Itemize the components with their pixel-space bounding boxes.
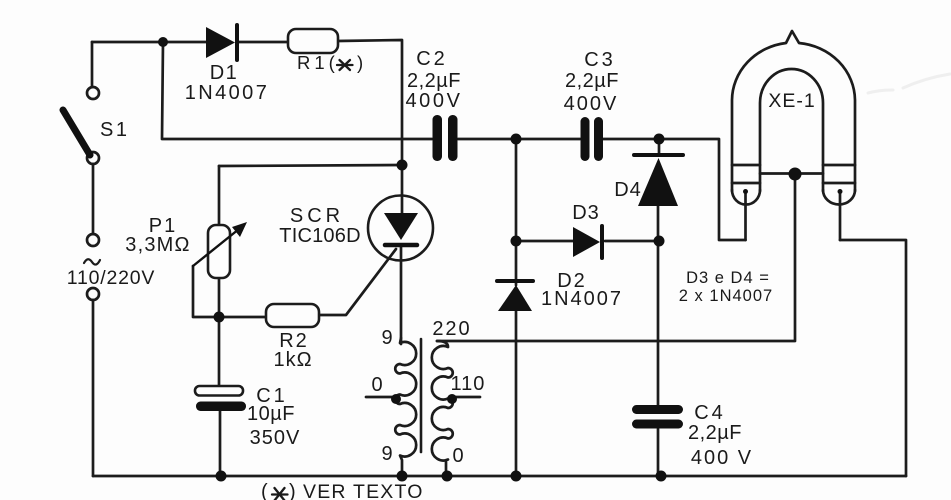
svg-text:400V: 400V — [564, 93, 619, 115]
svg-text:XE-1: XE-1 — [768, 90, 815, 112]
svg-text:2,2µF: 2,2µF — [565, 70, 619, 92]
svg-text:0: 0 — [452, 445, 465, 467]
svg-text:R1(: R1( — [297, 52, 339, 73]
svg-text:400V: 400V — [405, 90, 462, 112]
svg-text:9: 9 — [381, 443, 394, 465]
svg-text:D1: D1 — [210, 62, 239, 84]
svg-text:TIC106D: TIC106D — [279, 225, 360, 247]
svg-text:2,2µF: 2,2µF — [688, 422, 742, 444]
svg-text:VER TEXTO: VER TEXTO — [303, 481, 424, 500]
svg-text:220: 220 — [432, 318, 471, 340]
svg-text:110/220V: 110/220V — [67, 267, 155, 289]
svg-text:2,2µF: 2,2µF — [407, 70, 461, 92]
svg-text:C4: C4 — [694, 402, 726, 424]
svg-text:(: ( — [261, 481, 270, 500]
svg-text:0: 0 — [371, 374, 384, 396]
svg-text:1N4007: 1N4007 — [185, 82, 269, 104]
svg-text:400 V: 400 V — [691, 447, 753, 469]
svg-text:SCR: SCR — [290, 205, 344, 227]
svg-text:1N4007: 1N4007 — [541, 288, 623, 310]
svg-text:2 x 1N4007: 2 x 1N4007 — [679, 287, 773, 305]
svg-text:9: 9 — [381, 327, 394, 349]
svg-text:110: 110 — [451, 373, 486, 395]
svg-text:350V: 350V — [250, 427, 301, 449]
svg-text:D3: D3 — [572, 202, 600, 224]
svg-text:): ) — [289, 481, 298, 500]
svg-text:C3: C3 — [584, 49, 616, 71]
svg-text:3,3MΩ: 3,3MΩ — [125, 234, 190, 256]
svg-text:10µF: 10µF — [247, 403, 295, 425]
svg-text:): ) — [357, 52, 365, 73]
svg-text:D3 e D4 =: D3 e D4 = — [686, 269, 770, 287]
svg-text:C2: C2 — [416, 48, 448, 70]
svg-text:1kΩ: 1kΩ — [273, 349, 312, 371]
svg-text:D4: D4 — [614, 179, 642, 201]
svg-text:S1: S1 — [100, 119, 129, 141]
